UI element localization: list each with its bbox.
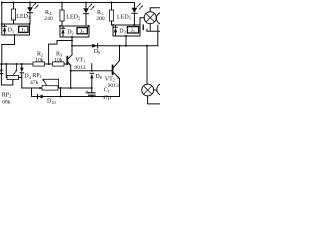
node row-C1 bbox=[91, 87, 93, 89]
node emitter-base bbox=[70, 70, 72, 72]
wiper RP2 bbox=[13, 64, 17, 75]
node D9-right bbox=[125, 45, 127, 47]
svg-text:J2: J2 bbox=[80, 29, 84, 35]
svg-text:VT1: VT1 bbox=[75, 58, 85, 64]
node frame1-left bbox=[1, 23, 3, 25]
node D9-left bbox=[71, 45, 73, 47]
contact bar J3-1 bbox=[143, 24, 144, 30]
svg-text:D10: D10 bbox=[47, 99, 56, 105]
wire base bus bbox=[0, 63, 66, 65]
lamp EL4 partial bbox=[157, 84, 169, 96]
svg-text:9013: 9013 bbox=[74, 65, 85, 71]
svg-text:RP2: RP2 bbox=[2, 93, 11, 99]
wire VT1 collector drop bbox=[71, 37, 73, 55]
svg-text:D1: D1 bbox=[8, 28, 14, 34]
diode D1 bbox=[4, 24, 6, 35]
wire lamp3 right lead bbox=[154, 89, 157, 91]
node bus-mid bbox=[48, 63, 50, 65]
resistor branch1 (unlabeled) bbox=[13, 3, 15, 25]
wire lamp1 bottom lead bbox=[147, 24, 160, 32]
resistor R2 bbox=[33, 62, 45, 66]
node row-D10-right bbox=[60, 87, 62, 89]
node frame3-LED bbox=[133, 24, 135, 26]
node frame2-bottom bbox=[71, 36, 73, 38]
lamp EL3 bbox=[142, 84, 154, 96]
svg-text:J1: J1 bbox=[21, 27, 25, 33]
svg-text:LED1: LED1 bbox=[16, 14, 30, 20]
wire emitter row bbox=[22, 87, 92, 89]
wire VT2 base line bbox=[71, 70, 112, 72]
diode D9 bbox=[92, 44, 97, 48]
node frame2-left bbox=[59, 25, 61, 27]
node frame3-bottom bbox=[125, 35, 127, 37]
wire branch3 drop bbox=[125, 36, 127, 46]
wire lamp1 top feed bbox=[150, 8, 160, 12]
resistor R1 bbox=[111, 3, 113, 26]
node bus-D4 bbox=[21, 63, 23, 65]
transistor VT2 bbox=[112, 65, 114, 76]
wire RP2 bottom tap bbox=[1, 64, 12, 85]
diode D10 bbox=[37, 94, 39, 98]
node row-VT1-emitter bbox=[70, 87, 72, 89]
wire branch1 to bus bbox=[2, 35, 15, 64]
polarity + bbox=[86, 91, 89, 94]
node rail-D10 bbox=[60, 96, 62, 98]
node rail-R-branch1 bbox=[13, 2, 15, 4]
wire lamp1 left lead bbox=[140, 18, 144, 25]
svg-text:200: 200 bbox=[96, 16, 105, 22]
wire tap to bus bbox=[49, 41, 72, 65]
wire cut lamp drop bbox=[157, 25, 159, 46]
resistor R3 bbox=[53, 62, 65, 66]
LED LED1 bbox=[29, 3, 31, 25]
node frame3-left bbox=[112, 24, 114, 26]
node base-D8 bbox=[91, 70, 93, 72]
diode D2 bbox=[62, 26, 64, 37]
node frame2-right bbox=[88, 25, 90, 27]
svg-text:D8: D8 bbox=[95, 74, 101, 80]
wire top supply rail bbox=[2, 2, 135, 4]
node lamp-drop bbox=[146, 45, 148, 47]
LED LED2 bbox=[85, 3, 87, 27]
diode D3 bbox=[115, 25, 117, 36]
node frame1-right bbox=[29, 23, 31, 25]
svg-text:240: 240 bbox=[44, 16, 53, 22]
relay J1 bbox=[19, 26, 28, 32]
svg-text:D4: D4 bbox=[24, 74, 31, 80]
transistor VT1 bbox=[66, 56, 68, 65]
node bus-RP2-wiper bbox=[16, 63, 18, 65]
diode D8 bbox=[90, 72, 93, 74]
node rail-LED1 bbox=[29, 2, 31, 4]
node bus-RP2-left bbox=[5, 63, 7, 65]
node VT2-collector-tap bbox=[119, 45, 121, 47]
potentiometer RP1 bbox=[42, 86, 58, 90]
wire ground rail bbox=[32, 88, 118, 97]
lamp EL1 bbox=[144, 12, 156, 24]
svg-text:D3: D3 bbox=[119, 28, 125, 34]
wiper RP1 bbox=[43, 80, 46, 85]
wire lamp2 top feed bbox=[146, 46, 148, 84]
svg-text:VT2: VT2 bbox=[105, 77, 115, 83]
lamp EL2 partial bbox=[156, 12, 168, 24]
node frame1-bottom bbox=[14, 34, 16, 36]
node rail-C1 bbox=[91, 96, 93, 98]
capacitor C1 bbox=[91, 88, 93, 93]
svg-text:RP1: RP1 bbox=[32, 73, 41, 79]
node rail-R1 bbox=[111, 2, 113, 4]
wire lamp3 bottom lead bbox=[148, 96, 160, 104]
wire left frame drop bbox=[1, 3, 3, 25]
node row-RP1-left bbox=[39, 87, 41, 89]
svg-text:68k: 68k bbox=[2, 100, 11, 106]
svg-text:LED3: LED3 bbox=[117, 15, 131, 21]
svg-text:D9: D9 bbox=[94, 49, 100, 55]
wire VT2 collector bbox=[119, 46, 121, 61]
wire D8 stub bbox=[91, 64, 93, 71]
LED LED3 bbox=[133, 3, 135, 26]
relay J2 bbox=[77, 28, 87, 34]
wire VT1 emitter drop bbox=[70, 65, 72, 88]
resistor R4 bbox=[61, 3, 63, 27]
node collector-tap bbox=[71, 40, 73, 42]
svg-text:47k: 47k bbox=[30, 80, 39, 86]
svg-text:D2: D2 bbox=[67, 29, 73, 35]
node rail-left bbox=[1, 2, 3, 4]
svg-text:LED2: LED2 bbox=[66, 15, 80, 21]
wire D9 line bbox=[72, 45, 158, 47]
wire branch3 relay frame bbox=[113, 25, 140, 36]
svg-text:C1: C1 bbox=[104, 88, 110, 94]
wire branch2 relay frame bbox=[60, 26, 89, 37]
diode D4 bbox=[21, 64, 23, 68]
wire VT2 emitter drop bbox=[117, 79, 120, 97]
node bus-left bbox=[1, 63, 3, 65]
node rail-R4 bbox=[61, 2, 63, 4]
svg-text:47μ: 47μ bbox=[102, 95, 111, 101]
relay J3 bbox=[127, 27, 138, 33]
potentiometer RP2 bbox=[5, 64, 8, 78]
wire branch1 relay frame bbox=[2, 24, 30, 35]
svg-text:J3: J3 bbox=[131, 28, 135, 34]
node rail-LED2 bbox=[85, 2, 87, 4]
diode D5 edge bbox=[0, 70, 3, 74]
